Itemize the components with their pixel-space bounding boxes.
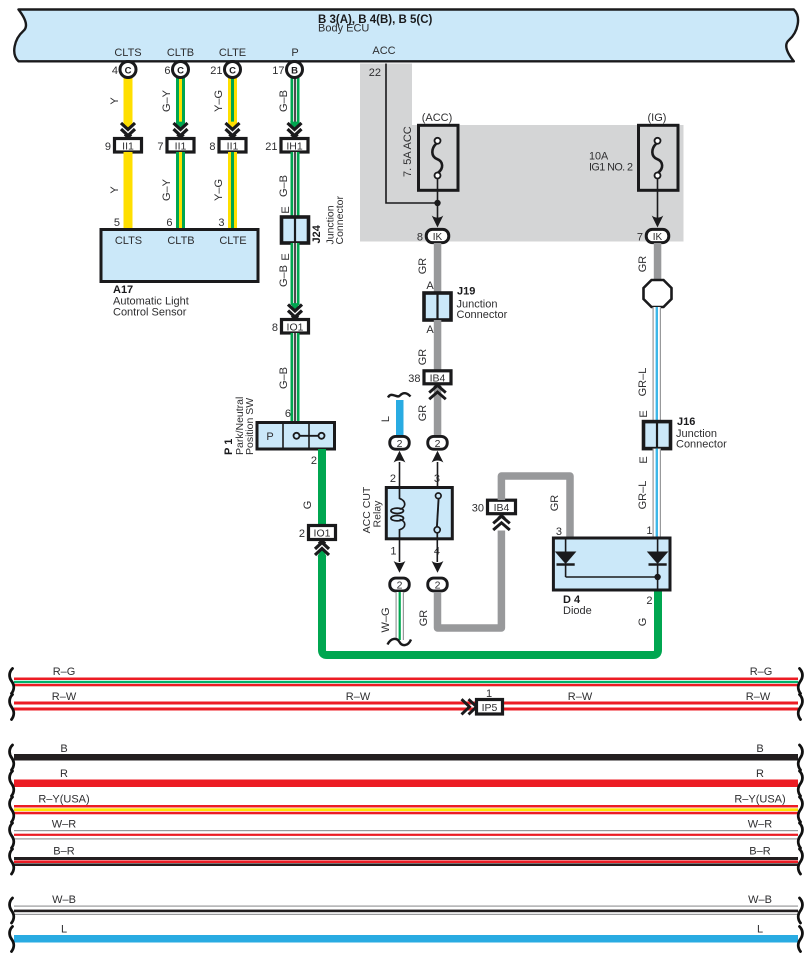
svg-text:CLTS: CLTS: [114, 47, 141, 59]
wire G main run down right and to diode pin2: [322, 556, 658, 656]
relay ACC CUT: [386, 488, 452, 539]
svg-text:G: G: [637, 618, 649, 627]
R-G brace left: [10, 669, 14, 694]
svg-text:22: 22: [369, 67, 381, 79]
wire GR J19 to IB4: [434, 320, 442, 371]
svg-text:6: 6: [164, 65, 170, 77]
wire GR-L J16 to diode pin1: [653, 449, 662, 538]
svg-text:CLTB: CLTB: [167, 47, 194, 59]
svg-text:W–R: W–R: [52, 819, 77, 831]
svg-text:2: 2: [397, 438, 403, 450]
svg-text:(ACC): (ACC): [422, 112, 453, 124]
arrow up out of IB4-38: [429, 384, 446, 399]
svg-text:W–B: W–B: [748, 894, 772, 906]
svg-text:IG1 NO. 2: IG1 NO. 2: [589, 162, 633, 174]
wire relay pin1 lead: [399, 539, 401, 562]
fuse IG 10A: [639, 125, 679, 190]
svg-text:R–Y(USA): R–Y(USA): [734, 794, 785, 806]
R-W brace right: [798, 695, 802, 720]
wire G-Y pin6 to II1: [176, 78, 185, 125]
svg-text:8: 8: [272, 322, 278, 334]
wire relay pin3 lead: [437, 462, 439, 488]
svg-text:7: 7: [637, 232, 643, 244]
component P1 park/neutral position switch: [257, 423, 335, 450]
svg-text:A17: A17: [113, 284, 133, 296]
arrow up out of IB4-30: [493, 515, 510, 530]
svg-text:Y: Y: [109, 97, 121, 105]
arrow down into oval pin1: [394, 561, 406, 573]
arrow into II1 col1: [121, 122, 135, 139]
wire W-B bus: [14, 906, 798, 916]
svg-text:B–R: B–R: [749, 846, 770, 858]
svg-text:4: 4: [112, 65, 118, 77]
svg-text:II1: II1: [175, 141, 187, 153]
svg-text:2: 2: [435, 580, 441, 592]
svg-text:3: 3: [218, 217, 224, 229]
wire GR IB4 to relay oval: [434, 387, 442, 436]
svg-text:G–Y: G–Y: [161, 178, 173, 201]
arrow into IH1 col4: [288, 122, 302, 139]
svg-text:2: 2: [397, 580, 403, 592]
svg-text:II1: II1: [227, 141, 239, 153]
svg-text:2: 2: [390, 473, 396, 485]
svg-text:30: 30: [472, 503, 484, 515]
L brace right: [798, 927, 802, 952]
svg-text:7: 7: [157, 141, 163, 153]
arrow into IO1: [288, 303, 302, 319]
svg-text:Relay: Relay: [372, 500, 384, 528]
svg-text:R–Y(USA): R–Y(USA): [38, 794, 89, 806]
wire Y-G II1 to A17 pin3: [228, 152, 237, 230]
wire relay pin2 lead: [399, 462, 401, 488]
wire fuse IG to IK7: [657, 179, 659, 218]
svg-text:2: 2: [435, 438, 441, 450]
svg-text:G–B: G–B: [278, 367, 290, 389]
svg-text:2: 2: [311, 455, 317, 467]
svg-text:GR: GR: [549, 495, 561, 512]
svg-text:CLTB: CLTB: [167, 235, 194, 247]
node junction dot: [434, 200, 440, 206]
pin 17 connector B: [272, 62, 302, 78]
wire R-W bus: [14, 702, 798, 711]
wire G-B J24 to IO1: [291, 243, 300, 305]
arrow into II1 col2: [174, 122, 188, 139]
arrow down into oval pin4: [432, 561, 444, 573]
connector 2 oval relay pin4: [428, 578, 448, 591]
wire Y-G pin21 to II1: [228, 78, 237, 125]
connector IH1 pin21: [265, 139, 308, 154]
svg-text:R: R: [60, 768, 68, 780]
svg-text:G–B: G–B: [278, 175, 290, 197]
wire G P1 pin2 down to IO1: [318, 449, 326, 526]
svg-text:IO1: IO1: [287, 322, 304, 334]
B brace right: [798, 745, 802, 770]
svg-text:1: 1: [646, 525, 652, 537]
connector IO1 pin8: [272, 320, 309, 335]
svg-text:Diode: Diode: [563, 605, 592, 617]
svg-text:W–R: W–R: [748, 819, 773, 831]
arrow into IP5: [462, 699, 477, 714]
svg-text:GR: GR: [417, 405, 429, 422]
wire R-Y bus: [14, 805, 798, 814]
svg-text:CLTE: CLTE: [219, 47, 246, 59]
wire GR IK7 to octagon: [654, 243, 662, 281]
svg-text:1: 1: [486, 688, 492, 700]
wire R bus: [14, 780, 798, 788]
R-W brace left: [10, 695, 14, 720]
connector II1 pin8: [209, 139, 246, 154]
wire L to relay oval: [396, 400, 404, 436]
W-B brace right: [798, 898, 802, 923]
wire fuse to IK8: [437, 179, 439, 218]
noise filter octagon: [644, 280, 672, 307]
svg-text:IK: IK: [433, 232, 443, 243]
svg-text:3: 3: [434, 473, 440, 485]
svg-text:R–W: R–W: [568, 691, 593, 703]
wire pin22 to ACC fuse: [386, 64, 438, 204]
wire W-R bus: [14, 830, 798, 840]
svg-text:8: 8: [209, 141, 215, 153]
svg-text:5: 5: [114, 217, 120, 229]
svg-text:C: C: [229, 65, 236, 76]
R-Y brace left: [10, 797, 14, 822]
svg-text:P: P: [266, 431, 273, 443]
svg-text:Body ECU: Body ECU: [318, 23, 369, 35]
junction connector J16: [644, 422, 671, 449]
wire W-G below relay: [396, 592, 405, 640]
svg-text:21: 21: [210, 65, 222, 77]
svg-text:GR: GR: [417, 349, 429, 366]
svg-text:GR: GR: [637, 256, 649, 273]
body ECU banner B3(A) B4(B) B5(C): [14, 10, 798, 62]
B-R brace right: [798, 849, 802, 874]
wire GR IK8 to J19: [434, 243, 442, 293]
svg-text:GR–L: GR–L: [637, 368, 649, 397]
svg-text:R–W: R–W: [746, 691, 771, 703]
svg-text:E: E: [638, 410, 650, 417]
wire GR relay pin4 run to IB4-30: [438, 531, 502, 629]
svg-text:Y–G: Y–G: [213, 179, 225, 201]
svg-text:(IG): (IG): [648, 112, 667, 124]
svg-text:Connector: Connector: [334, 196, 346, 245]
wire R-G bus: [14, 678, 798, 687]
L brace left: [10, 927, 14, 952]
svg-text:CLTE: CLTE: [219, 235, 246, 247]
svg-text:W–G: W–G: [380, 607, 392, 632]
svg-text:Connector: Connector: [676, 439, 727, 451]
svg-text:G: G: [302, 501, 314, 510]
svg-text:L: L: [380, 416, 392, 422]
svg-text:E: E: [280, 206, 292, 213]
svg-text:R: R: [756, 768, 764, 780]
svg-text:2: 2: [299, 528, 305, 540]
junction connector J24: [282, 217, 309, 243]
W-R brace right: [798, 823, 802, 848]
ECU power strip shaded block: [360, 64, 684, 242]
connector II1 pin9: [105, 139, 142, 154]
svg-text:ACC: ACC: [372, 45, 395, 57]
wire L squiggle top: [388, 393, 411, 397]
svg-text:J19: J19: [457, 286, 475, 298]
svg-text:1: 1: [390, 546, 396, 558]
B-R brace left: [10, 849, 14, 874]
svg-text:17: 17: [272, 65, 284, 77]
svg-text:IP5: IP5: [482, 702, 498, 714]
svg-text:C: C: [125, 65, 132, 76]
connector IO1 pin2: [299, 526, 336, 541]
connector IB4 pin38: [408, 371, 451, 385]
pin 6 connector C: [164, 62, 188, 78]
W-B brace left: [10, 898, 14, 923]
arrow up into oval pin3: [432, 451, 444, 463]
svg-text:W–B: W–B: [52, 894, 76, 906]
svg-text:38: 38: [408, 373, 420, 385]
connector 2 oval relay pin2: [390, 436, 410, 449]
svg-text:21: 21: [265, 141, 277, 153]
R brace left: [10, 771, 14, 796]
svg-text:R–G: R–G: [750, 666, 773, 678]
fuse ACC 7.5A: [419, 125, 459, 190]
arrow into IK8: [432, 216, 444, 228]
wire Y pin4 to II1: [124, 78, 133, 125]
R-Y brace right: [798, 797, 802, 822]
svg-text:E: E: [280, 253, 292, 260]
connector II1 pin7: [157, 139, 194, 154]
svg-text:9: 9: [105, 141, 111, 153]
wire G-B IH1 to J24: [291, 152, 300, 217]
svg-text:A: A: [426, 280, 434, 292]
svg-text:E: E: [638, 456, 650, 463]
svg-text:GR: GR: [418, 610, 430, 627]
svg-text:IB4: IB4: [494, 502, 510, 514]
R-G brace right: [798, 669, 802, 694]
svg-text:IK: IK: [653, 232, 663, 243]
svg-text:7. 5A ACC: 7. 5A ACC: [402, 126, 414, 177]
svg-text:Y: Y: [109, 186, 121, 194]
pin 4 connector C: [112, 62, 136, 78]
svg-text:G–Y: G–Y: [161, 89, 173, 112]
wire relay pin4 lead: [436, 539, 438, 562]
svg-text:C: C: [177, 65, 184, 76]
component A17 automatic light control sensor: [101, 230, 258, 282]
svg-text:IB4: IB4: [430, 373, 446, 385]
wire B-R bus: [14, 857, 798, 866]
wire L bus: [14, 935, 798, 943]
connector IP5 pin1: [477, 688, 503, 714]
svg-text:A: A: [426, 324, 434, 336]
svg-text:2: 2: [646, 595, 652, 607]
arrow up out of IO1: [315, 540, 329, 557]
svg-text:R–W: R–W: [346, 691, 371, 703]
arrow into II1 col3: [226, 122, 240, 139]
svg-text:P: P: [291, 47, 298, 59]
connector 2 oval relay pin3: [428, 436, 448, 449]
wire G-Y II1 to A17 pin6: [176, 152, 185, 230]
junction connector J19: [424, 293, 451, 320]
svg-text:J24: J24: [311, 224, 323, 243]
arrow into IK7: [652, 216, 664, 228]
wire G-B IO1 to P1 pin6: [291, 333, 300, 423]
connector IK pin7: [637, 229, 669, 243]
svg-text:GR–L: GR–L: [637, 481, 649, 510]
svg-text:L: L: [757, 924, 763, 936]
B brace left: [10, 745, 14, 770]
wire GR IB4-30 up over to diode pin3: [501, 476, 570, 538]
svg-text:6: 6: [166, 217, 172, 229]
arrow up into oval pin2: [394, 451, 406, 463]
wire GR-L octagon to J16: [653, 307, 662, 422]
connector 2 oval relay pin1: [390, 578, 410, 591]
svg-text:L: L: [61, 924, 67, 936]
component D4 diode box: [553, 538, 670, 590]
W-R brace left: [10, 823, 14, 848]
svg-text:Y–G: Y–G: [213, 90, 225, 112]
svg-text:Control Sensor: Control Sensor: [113, 306, 187, 318]
wire Y II1 to A17 pin5: [124, 152, 133, 230]
svg-text:3: 3: [556, 526, 562, 538]
svg-text:Connector: Connector: [457, 309, 508, 321]
connector IB4 pin30: [472, 500, 516, 514]
wire B bus: [14, 754, 798, 761]
connector IK pin8: [417, 229, 449, 243]
svg-text:8: 8: [417, 232, 423, 244]
pin 21 connector C: [210, 62, 240, 78]
svg-text:Position SW: Position SW: [244, 398, 256, 455]
R brace right: [798, 771, 802, 796]
svg-text:B: B: [291, 65, 298, 76]
wire G-B pin17 to IH1: [291, 78, 300, 125]
svg-text:IH1: IH1: [286, 141, 303, 153]
svg-text:GR: GR: [417, 258, 429, 275]
svg-text:G–B: G–B: [278, 265, 290, 287]
svg-text:G–B: G–B: [278, 90, 290, 112]
svg-text:B–R: B–R: [53, 846, 74, 858]
svg-text:J16: J16: [677, 416, 695, 428]
svg-text:R–G: R–G: [53, 666, 76, 678]
svg-text:CLTS: CLTS: [115, 235, 142, 247]
svg-text:6: 6: [285, 408, 291, 420]
svg-text:R–W: R–W: [52, 691, 77, 703]
svg-text:II1: II1: [122, 141, 134, 153]
svg-text:B: B: [60, 743, 67, 755]
svg-text:B: B: [756, 743, 763, 755]
wire W-G end squiggle: [388, 639, 412, 645]
svg-text:IO1: IO1: [314, 528, 331, 540]
